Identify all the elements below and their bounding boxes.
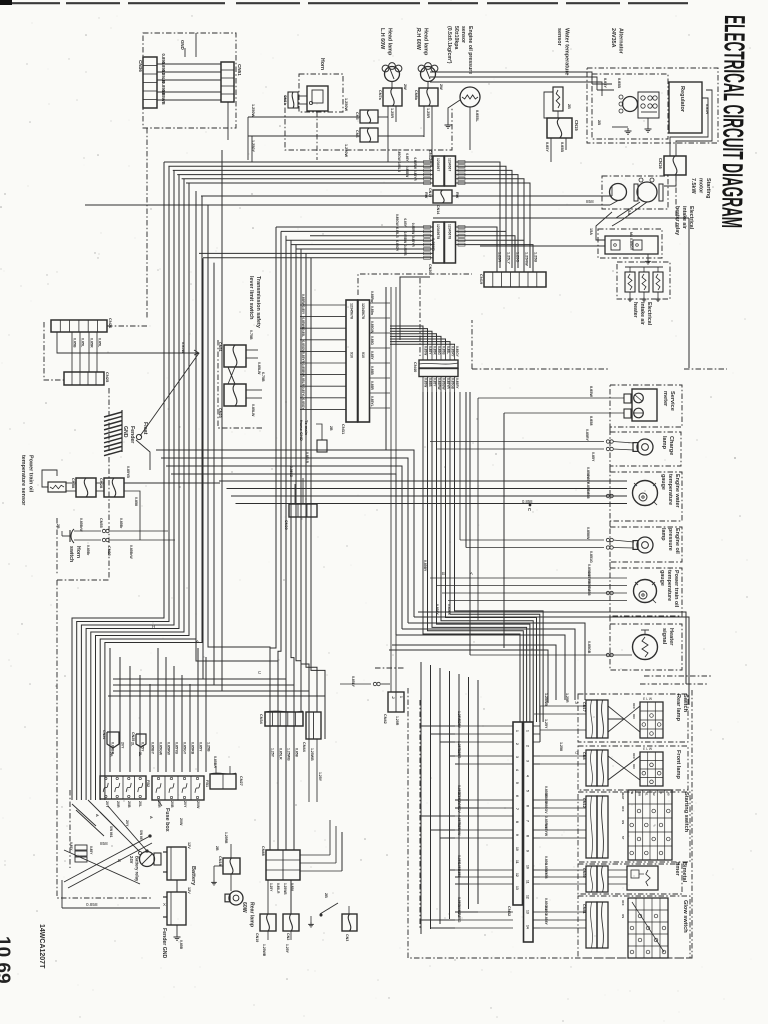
svg-text:BR: BR — [637, 792, 641, 796]
svg-text:60W: 60W — [241, 902, 247, 913]
CN31 left wires — [300, 294, 346, 410]
svg-text:0.85LB: 0.85LB — [395, 227, 399, 238]
svg-text:M4 0.85GY: M4 0.85GY — [629, 232, 633, 251]
svg-text:1.25R: 1.25R — [390, 108, 394, 118]
svg-text:20Y: 20Y — [121, 742, 125, 749]
svg-text:0.85LR: 0.85LR — [276, 883, 280, 894]
svg-text:ON: ON — [621, 820, 625, 824]
svg-text:OFF: OFF — [632, 703, 636, 709]
svg-text:FB1: FB1 — [205, 780, 209, 787]
power train gauge wires — [430, 392, 627, 601]
svg-text:0.85R: 0.85R — [705, 104, 709, 114]
svg-text:20B: 20B — [170, 801, 174, 808]
svg-text:0.85B: 0.85B — [617, 78, 621, 88]
rear lamp grid — [640, 702, 663, 738]
svg-text:A: A — [95, 814, 99, 817]
heater signal wire — [470, 654, 632, 656]
connector CN3 — [342, 914, 357, 931]
svg-text:0.85BW: 0.85BW — [405, 166, 409, 178]
svg-text:0.85LW: 0.85LW — [251, 404, 255, 417]
head lamp R.H — [421, 67, 436, 82]
svg-text:sensor: sensor — [556, 28, 562, 47]
horn wires — [298, 95, 307, 97]
svg-text:CN23: CN23 — [218, 408, 222, 418]
svg-text:0.85Y: 0.85Y — [301, 306, 305, 315]
starting switch dash box — [578, 792, 690, 862]
svg-text:0.85RW: 0.85RW — [411, 223, 415, 234]
battery area diagonals — [62, 800, 166, 908]
connector CN30b — [586, 866, 597, 892]
switch panel outer dash box — [408, 688, 692, 958]
gnd bottom mid — [310, 916, 312, 922]
svg-text:910: 910 — [361, 352, 365, 358]
svg-text:24V: 24V — [129, 856, 134, 864]
connector CN43 bullets — [373, 682, 376, 685]
svg-text:CN15: CN15 — [574, 120, 579, 131]
connector CN8b — [419, 88, 438, 106]
svg-text:0.85BY: 0.85BY — [423, 560, 427, 572]
svg-text:1.25LY: 1.25LY — [507, 252, 511, 264]
mid rows bundle — [156, 450, 414, 635]
svg-text:X: X — [163, 902, 166, 907]
svg-text:12345678: 12345678 — [361, 303, 365, 319]
svg-text:Water temperature: Water temperature — [563, 28, 569, 75]
svg-text:CN42: CN42 — [383, 714, 387, 724]
alternator — [623, 97, 638, 112]
svg-text:Bimetal: Bimetal — [681, 862, 687, 883]
svg-text:Fender GND: Fender GND — [161, 928, 167, 959]
svg-text:1.25RB: 1.25RB — [224, 832, 228, 844]
svg-text:CN14: CN14 — [436, 205, 440, 214]
svg-text:0.85GY: 0.85GY — [455, 346, 459, 358]
connector CN22 — [102, 538, 105, 541]
horn connector CN1b — [288, 92, 298, 108]
battery relay — [140, 852, 155, 867]
svg-text:(0.5±0.1kg/cm²): (0.5±0.1kg/cm²) — [446, 26, 452, 64]
svg-text:0.85BW: 0.85BW — [403, 232, 407, 244]
svg-text:1.25Y: 1.25Y — [271, 748, 275, 758]
svg-text:0.85GV: 0.85GV — [544, 802, 548, 814]
svg-text:12345678: 12345678 — [350, 303, 354, 319]
connector CN2 — [283, 914, 299, 931]
svg-text:3: 3 — [515, 756, 519, 758]
svg-text:A5: A5 — [667, 792, 671, 796]
bundle A sources — [0, 0, 1, 1]
svg-text:0.85B: 0.85B — [428, 378, 432, 387]
svg-text:ON: ON — [632, 714, 636, 719]
svg-text:6.75B: 6.75B — [261, 372, 265, 382]
regulator right wires — [676, 90, 712, 156]
svg-text:B: B — [118, 858, 121, 863]
front lamp grid — [640, 752, 663, 786]
svg-text:0.855L: 0.855L — [475, 110, 479, 123]
svg-text:RW: RW — [424, 192, 428, 199]
svg-text:0.85LR: 0.85LR — [301, 375, 305, 386]
svg-text:meter: meter — [662, 391, 668, 407]
svg-text:C: C — [659, 792, 663, 794]
svg-text:0.85BrW: 0.85BrW — [129, 545, 133, 559]
connector CN12 — [433, 156, 444, 186]
svg-text:0.85RW: 0.85RW — [167, 742, 171, 756]
fuse feed verticals — [110, 648, 206, 772]
heater relay dash box — [598, 229, 662, 258]
svg-text:10: 10 — [526, 865, 530, 869]
svg-text:lamp: lamp — [660, 528, 666, 541]
svg-text:C: C — [258, 670, 261, 675]
svg-text:OFF: OFF — [621, 806, 625, 812]
svg-text:Engine oil pressure: Engine oil pressure — [467, 26, 473, 74]
switch feeder columns — [421, 662, 478, 934]
svg-text:0.85RW: 0.85RW — [437, 378, 441, 389]
water temp gauge — [633, 481, 658, 506]
bundle A trunk — [72, 150, 280, 800]
svg-text:0.85GY: 0.85GY — [395, 240, 399, 252]
connector CN23 — [224, 384, 246, 406]
oil pressure lamp — [637, 537, 653, 553]
connector CN55 — [102, 529, 105, 532]
svg-text:15A: 15A — [589, 228, 593, 235]
connector CN19 — [484, 272, 546, 287]
svg-text:12: 12 — [526, 895, 530, 899]
head lamp L.H — [385, 67, 400, 82]
oil pressure wires — [460, 539, 604, 541]
svg-text:0.858X: 0.858X — [447, 604, 451, 615]
connector CN17 — [586, 700, 597, 738]
svg-text:CN28: CN28 — [99, 478, 104, 489]
svg-text:ELECTRICAL CIRCUIT DIAGRAM: ELECTRICAL CIRCUIT DIAGRAM — [715, 15, 750, 228]
svg-text:20L: 20L — [138, 801, 142, 808]
svg-text:2B: 2B — [109, 752, 113, 757]
horn switch — [62, 535, 70, 537]
wire bus lower left — [199, 214, 433, 259]
svg-text:0.85Rw: 0.85Rw — [370, 291, 374, 303]
svg-text:0.85GW: 0.85GW — [395, 214, 399, 226]
svg-text:0.85YL: 0.85YL — [370, 396, 374, 407]
svg-text:5: 5 — [526, 790, 530, 792]
charge lamp bullets — [606, 440, 609, 443]
svg-text:ST: ST — [621, 836, 625, 840]
svg-text:20W: 20W — [179, 818, 183, 826]
svg-text:0.858: 0.858 — [586, 490, 590, 499]
svg-text:0.85L: 0.85L — [81, 338, 85, 348]
horn switch wires — [74, 530, 101, 532]
lamp feed wire lower — [248, 135, 360, 137]
regulator box — [669, 82, 702, 133]
svg-text:2: 2 — [526, 745, 530, 747]
svg-text:11: 11 — [515, 860, 519, 864]
dash-dot CN31 top — [358, 274, 472, 295]
svg-text:0.85GB: 0.85GB — [451, 378, 455, 390]
heater relay gnd — [647, 254, 649, 259]
battery 1 — [167, 847, 186, 880]
svg-text:20R: 20R — [116, 801, 120, 808]
svg-text:Battery: Battery — [190, 866, 196, 886]
lamp feed wire upper — [248, 116, 360, 118]
svg-text:CN30: CN30 — [582, 868, 586, 878]
wire 858 long — [85, 204, 610, 206]
svg-text:E L W: E L W — [643, 747, 653, 751]
svg-text:0.85RB: 0.85RB — [403, 245, 407, 257]
bimetal timer — [627, 866, 658, 890]
svg-text:0.85RW: 0.85RW — [413, 157, 417, 168]
svg-text:CN3: CN3 — [345, 934, 349, 941]
svg-text:Engine water: Engine water — [674, 474, 680, 508]
svg-text:R1: R1 — [645, 792, 649, 796]
svg-text:CN16: CN16 — [658, 158, 663, 169]
glow switch grid — [628, 898, 668, 958]
gauge column dashdot joins — [609, 427, 611, 432]
battery gnd — [176, 925, 178, 934]
svg-text:Service: Service — [669, 391, 675, 411]
svg-text:0.85LB: 0.85LB — [289, 466, 293, 478]
svg-text:0.858: 0.858 — [589, 416, 593, 426]
connector CN58 — [76, 478, 96, 497]
svg-text:C: C — [527, 508, 532, 511]
float link — [136, 440, 150, 470]
heater signal box — [610, 624, 682, 670]
svg-text:-2: -2 — [391, 696, 395, 699]
svg-text:0.85Y: 0.85Y — [545, 142, 549, 152]
connector CN31 — [346, 300, 358, 422]
alternator gnd — [647, 118, 649, 126]
sensor out wires — [72, 483, 133, 612]
svg-text:Head lamp: Head lamp — [422, 28, 428, 56]
transmission X wires — [228, 367, 235, 384]
dash-dot vert x147 — [146, 128, 148, 318]
svg-text:CN25: CN25 — [105, 372, 110, 383]
battery wires — [146, 800, 148, 851]
water temperature sensor — [553, 87, 563, 111]
svg-text:0.85B: 0.85B — [370, 366, 374, 375]
svg-text:1234567: 1234567 — [436, 158, 440, 171]
svg-text:2: 2 — [515, 743, 519, 745]
svg-text:1.25R: 1.25R — [498, 252, 502, 262]
svg-text:20B: 20B — [127, 801, 131, 808]
svg-text:858: 858 — [100, 841, 108, 846]
CN32 right stubs — [533, 726, 540, 928]
oil pressure feed drops — [459, 392, 461, 540]
water temp gauge box — [610, 472, 682, 521]
svg-text:20Y: 20Y — [183, 801, 187, 808]
CN27 stub — [215, 766, 217, 774]
svg-text:RW: RW — [455, 192, 459, 199]
heater signal — [633, 635, 658, 660]
svg-text:0.85W: 0.85W — [181, 342, 185, 353]
svg-text:8: 8 — [515, 821, 519, 823]
svg-text:0.858: 0.858 — [134, 497, 138, 506]
CN32 right bus verticals — [539, 706, 541, 734]
svg-text:sensor: sensor — [460, 26, 466, 43]
power train feed drops — [430, 392, 448, 601]
CN30s wires — [294, 484, 296, 504]
svg-text:intake air: intake air — [639, 302, 645, 325]
fender gnd hatch — [104, 410, 122, 456]
svg-text:Power train oil: Power train oil — [27, 455, 33, 493]
wire 0.85W to bundle — [57, 332, 199, 353]
connector CN34 — [265, 712, 303, 726]
svg-text:0.85Y: 0.85Y — [370, 351, 374, 360]
svg-text:0.85GB: 0.85GB — [587, 641, 591, 654]
connector CN24 — [107, 732, 119, 748]
small node marks — [146, 850, 149, 853]
svg-text:lamp: lamp — [661, 436, 667, 450]
head lamp R wires — [423, 106, 425, 137]
svg-text:intake air: intake air — [681, 206, 687, 229]
svg-text:1.25WB: 1.25WB — [283, 883, 287, 895]
svg-text:1: 1 — [399, 696, 403, 698]
svg-text:CN26: CN26 — [108, 318, 113, 329]
svg-text:CN17: CN17 — [582, 702, 586, 712]
heater relay wires — [480, 245, 605, 247]
sensor wires — [66, 482, 76, 484]
svg-text:0.85Y: 0.85Y — [89, 846, 93, 855]
svg-text:1.25RW: 1.25RW — [525, 252, 529, 266]
horn switch wires right — [110, 531, 168, 560]
wire long y218 — [433, 217, 689, 219]
dash-dot battery panel — [57, 579, 109, 581]
CN15 wires — [550, 138, 552, 162]
CN44 drop wires — [308, 739, 310, 802]
glow dash box — [578, 896, 690, 958]
svg-text:0.85Y: 0.85Y — [428, 346, 432, 355]
svg-text:Rear lamp: Rear lamp — [675, 694, 681, 722]
relay dashdot link — [675, 176, 677, 229]
svg-text:Electrical: Electrical — [688, 206, 694, 230]
connector CN7a — [383, 88, 402, 106]
bundle B trunk — [270, 227, 325, 712]
svg-text:0.85LW: 0.85LW — [257, 362, 261, 375]
CN31 right wires — [369, 291, 390, 408]
svg-text:Horn: Horn — [319, 58, 325, 70]
svg-text:0.85L: 0.85L — [98, 338, 102, 348]
oil pressure lamp box — [610, 527, 682, 562]
svg-text:14: 14 — [526, 925, 530, 929]
svg-text:E L W: E L W — [643, 697, 653, 701]
wires CN36 to CN51 — [157, 54, 221, 105]
connector CN20 — [433, 222, 444, 263]
front lamp switch dash box — [578, 746, 688, 790]
sensor out wire 1 — [124, 482, 220, 484]
CN40 pin labels — [424, 346, 460, 390]
CN32 to switch links — [539, 706, 541, 764]
svg-text:CN12: CN12 — [428, 150, 433, 161]
svg-text:0.858: 0.858 — [86, 902, 98, 907]
svg-text:CN34: CN34 — [259, 714, 263, 725]
svg-text:CN31: CN31 — [341, 424, 346, 435]
wire CN51 down — [227, 102, 229, 140]
wire bus upper right — [456, 161, 531, 269]
svg-text:0.85RY: 0.85RY — [455, 378, 459, 389]
svg-text:0.85BY: 0.85BY — [151, 742, 155, 755]
svg-text:0.85YB: 0.85YB — [175, 742, 179, 754]
regulator inner dash box — [592, 74, 668, 139]
svg-text:1.25WB: 1.25WB — [287, 748, 291, 761]
svg-text:12345678: 12345678 — [436, 224, 440, 239]
svg-text:1: 1 — [515, 730, 519, 732]
svg-text:0.85RY: 0.85RY — [585, 429, 589, 441]
battery 2 — [167, 892, 186, 925]
svg-text:0.85B: 0.85B — [442, 346, 446, 355]
CN19b feeds — [267, 880, 269, 914]
connector CN36 — [143, 57, 157, 108]
svg-text:Charge: Charge — [668, 436, 674, 455]
svg-text:1234567: 1234567 — [448, 158, 452, 171]
svg-text:0.85LY: 0.85LY — [351, 676, 355, 688]
connector CN16 — [664, 156, 686, 175]
svg-text:0.75B: 0.75B — [249, 330, 253, 340]
connector CN5 — [360, 110, 378, 123]
svg-text:FB2: FB2 — [146, 780, 150, 787]
svg-text:Horn: Horn — [75, 546, 81, 558]
svg-text:12345678: 12345678 — [448, 224, 452, 239]
transmission wires — [246, 349, 258, 351]
svg-text:0.85W: 0.85W — [589, 386, 593, 397]
svg-text:Power train oil: Power train oil — [673, 570, 679, 608]
svg-text:B: B — [442, 571, 445, 576]
svg-text:2B: 2B — [329, 426, 333, 431]
svg-text:0.85Br: 0.85Br — [119, 518, 123, 529]
starting motor box — [602, 176, 668, 209]
connector CN25b — [136, 734, 146, 747]
svg-text:ON: ON — [632, 764, 636, 769]
sensor out wire 2 — [124, 491, 140, 540]
svg-text:5: 5 — [515, 782, 519, 784]
svg-text:M: M — [575, 700, 578, 705]
svg-text:4: 4 — [515, 769, 519, 771]
svg-text:1.25WB: 1.25WB — [310, 748, 314, 761]
svg-text:0.858Y: 0.858Y — [435, 604, 439, 615]
svg-text:1.25B: 1.25B — [207, 742, 211, 752]
svg-text:SW 86: SW 86 — [139, 830, 143, 840]
wire bus upper left — [164, 149, 433, 185]
power train gauge — [634, 580, 657, 603]
svg-text:0.85LB: 0.85LB — [305, 452, 309, 464]
connector CN14 — [433, 190, 452, 203]
svg-text:A: A — [196, 639, 199, 644]
fuse box FB1 — [152, 776, 204, 800]
svg-text:3: 3 — [526, 760, 530, 762]
svg-text:temperature: temperature — [666, 570, 672, 601]
svg-text:8: 8 — [526, 835, 530, 837]
heater relay — [605, 236, 658, 254]
svg-text:0.858: 0.858 — [544, 870, 548, 879]
oil sensor gnd wire — [448, 100, 460, 122]
svg-text:CN8b: CN8b — [414, 90, 418, 101]
svg-text:1.25R: 1.25R — [426, 108, 430, 118]
svg-text:0.85YR: 0.85YR — [413, 170, 417, 181]
svg-text:2B: 2B — [324, 893, 328, 898]
svg-text:signal: signal — [661, 628, 667, 645]
svg-text:0.85W: 0.85W — [424, 346, 428, 355]
connector CN42 — [388, 692, 404, 712]
svg-text:0.85R: 0.85R — [90, 338, 94, 348]
CN32 left wires — [455, 711, 513, 928]
svg-text:1.25R: 1.25R — [565, 693, 569, 703]
svg-text:0.85Y: 0.85Y — [69, 842, 73, 851]
svg-text:Rear lamp: Rear lamp — [249, 902, 255, 927]
svg-text:CN12: CN12 — [582, 798, 586, 808]
svg-text:910: 910 — [350, 352, 354, 358]
starting motor — [610, 184, 627, 201]
svg-text:CN7a: CN7a — [378, 90, 382, 101]
svg-text:0.85Y: 0.85Y — [405, 153, 409, 162]
svg-text:0.858: 0.858 — [295, 748, 299, 757]
charge lamp box — [610, 432, 681, 466]
wire into CN14 — [204, 196, 206, 200]
CN31 top corner wire — [400, 277, 430, 340]
svg-text:CN51: CN51 — [237, 64, 242, 76]
svg-text:0.85B: 0.85B — [179, 940, 183, 950]
